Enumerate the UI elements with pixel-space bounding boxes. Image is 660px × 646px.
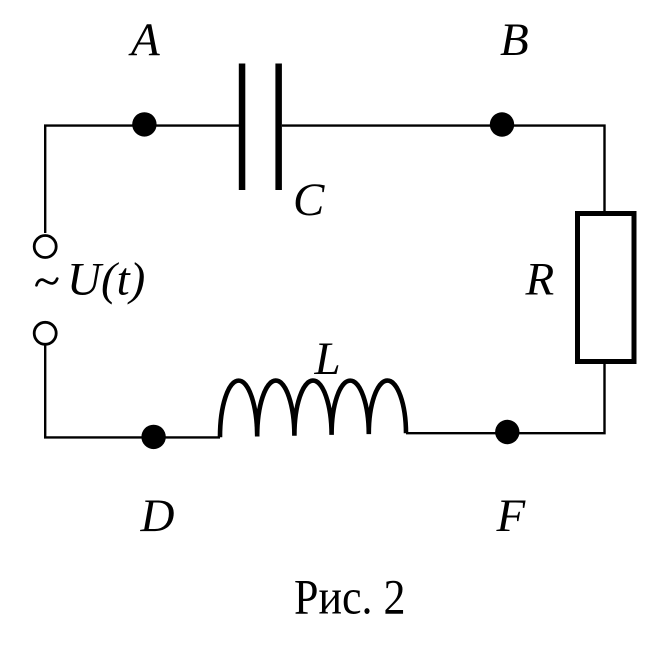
svg-text:L: L (314, 333, 341, 385)
svg-text:C: C (293, 174, 325, 226)
svg-text:D: D (140, 490, 175, 542)
svg-text:A: A (128, 14, 160, 66)
svg-text:U(t): U(t) (67, 254, 145, 306)
svg-text:B: B (500, 14, 529, 66)
svg-text:F: F (496, 490, 527, 542)
svg-text:R: R (525, 253, 555, 305)
svg-text:Рис. 2: Рис. 2 (294, 569, 406, 625)
